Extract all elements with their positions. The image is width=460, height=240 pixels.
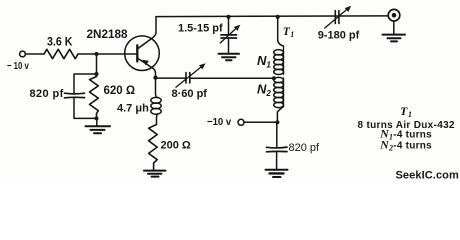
svg-text:3.6 K: 3.6 K xyxy=(47,35,73,49)
svg-text:N2-4 turns: N2-4 turns xyxy=(379,138,432,153)
svg-text:200 Ω: 200 Ω xyxy=(161,140,191,152)
svg-text:9-180 pf: 9-180 pf xyxy=(318,29,360,41)
svg-text:T1: T1 xyxy=(400,104,412,119)
svg-text:N1: N1 xyxy=(257,53,271,70)
svg-text:1.5-15 pf: 1.5-15 pf xyxy=(178,23,223,35)
svg-text:SeekIC.com: SeekIC.com xyxy=(396,169,459,181)
svg-text:620 Ω: 620 Ω xyxy=(104,85,136,97)
svg-text:N2: N2 xyxy=(257,82,271,99)
svg-text:2N2188: 2N2188 xyxy=(87,27,128,41)
svg-text:820 pf: 820 pf xyxy=(289,142,321,154)
svg-text:T1: T1 xyxy=(283,26,295,39)
svg-text:820 pf: 820 pf xyxy=(30,88,64,100)
svg-text:− 10 v: − 10 v xyxy=(7,60,29,72)
svg-text:8·60 pf: 8·60 pf xyxy=(172,88,208,100)
svg-text:4.7 μh: 4.7 μh xyxy=(117,103,149,115)
svg-text:−10 v: −10 v xyxy=(207,116,231,128)
